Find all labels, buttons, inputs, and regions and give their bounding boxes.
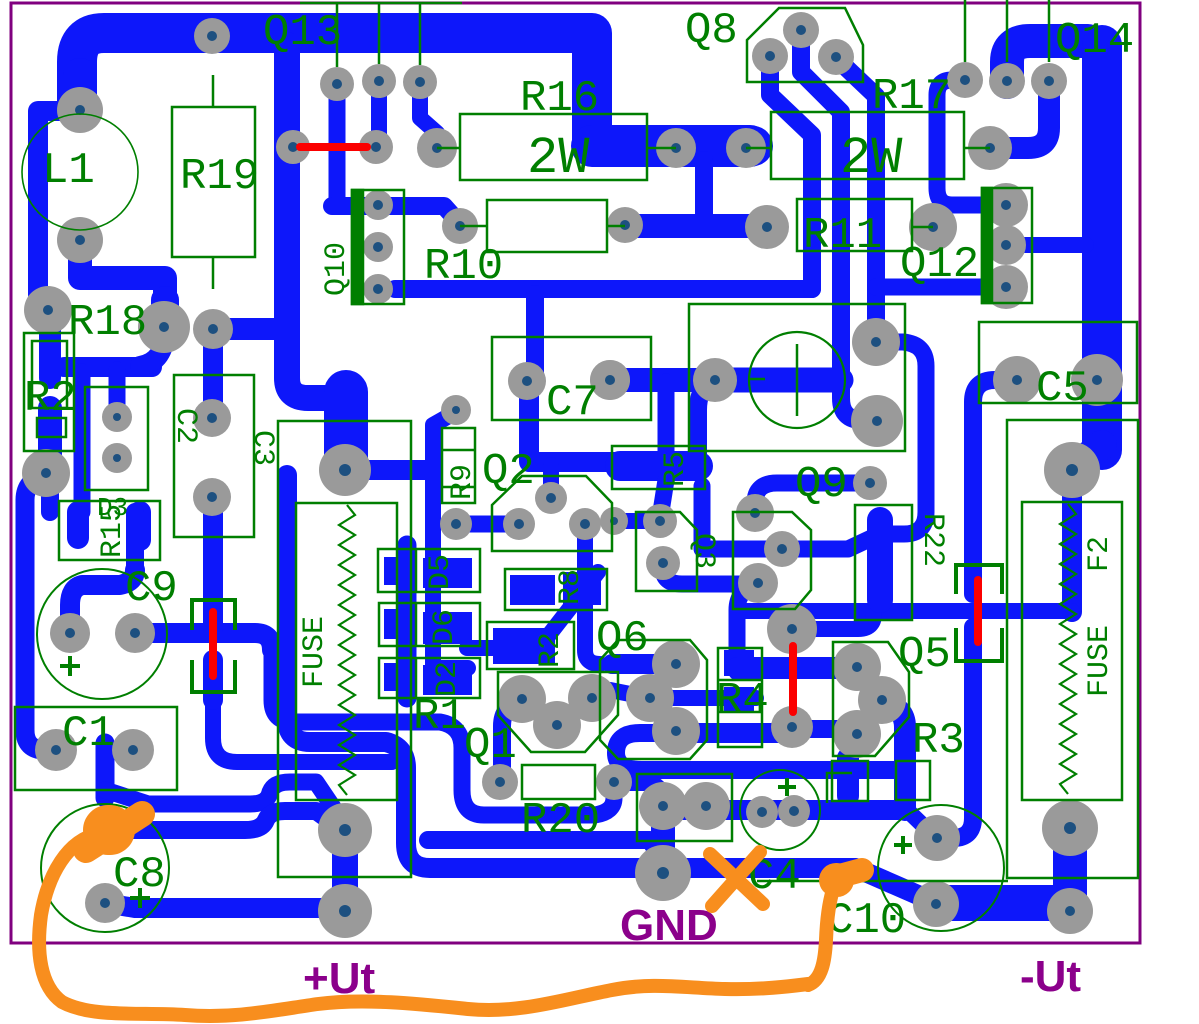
wire L1 pad to left rail [38, 111, 80, 312]
wire top bus from L1 to R16 [77, 33, 753, 146]
wire R15 drop [74, 372, 91, 512]
pad GND block 1 [639, 782, 687, 830]
svg-text:Q2: Q2 [482, 447, 535, 497]
svg-text:Q6: Q6 [596, 614, 649, 664]
svg-text:F2: F2 [1083, 536, 1117, 572]
wire R16 stub down [695, 160, 713, 227]
fuse F1 [278, 421, 411, 877]
transistor Q12 [900, 188, 1032, 303]
pad Q4 mid [738, 563, 778, 603]
pad L1.1 [57, 87, 103, 133]
transistor Q10 [320, 190, 404, 304]
wire Q6 pad3 to jumper pad [676, 723, 792, 743]
cap block small left [832, 761, 868, 801]
pad node 456 [441, 395, 471, 425]
wire C2 feed band [64, 357, 152, 377]
pad Q10.2 [363, 232, 393, 262]
transistor Q3 [636, 512, 720, 591]
jumper wire J3 [789, 646, 797, 712]
wire rail into big pad [1072, 445, 1102, 470]
wire C5 pad down the right column to C10 [973, 380, 1017, 594]
pad node 456b [440, 508, 472, 540]
wire C7 pad down to R5 [529, 385, 618, 462]
svg-text:R9: R9 [446, 464, 480, 500]
wire jumper pad riser [792, 614, 874, 629]
pad GND big [635, 845, 691, 901]
pad trimmer left [590, 360, 630, 400]
transistor Q8 [685, 6, 863, 82]
wire trimmer pads band [610, 368, 715, 392]
wire Q8 leg1 via R11 to R10 bus [770, 58, 812, 289]
pad Q6.3 [652, 707, 700, 755]
wire trimmer right pad down [698, 382, 712, 455]
svg-text:R8: R8 [554, 569, 588, 605]
pad Q9 [853, 466, 887, 500]
svg-text:R18: R18 [68, 298, 147, 348]
pad Q1.3 [568, 674, 616, 722]
diode D5 [378, 549, 480, 592]
pad C2.2 [102, 443, 132, 473]
wire C9 arc from jumper column [70, 570, 135, 630]
wire lane B fuse rail to C10 [287, 475, 934, 902]
resistor R2 [24, 333, 77, 451]
wire Q13 leg2 drop [376, 84, 379, 147]
pad Q1.2 [533, 701, 581, 749]
pad C4.2 [778, 795, 810, 827]
wire Q3 pads link [663, 568, 758, 584]
pad Q6.1 [652, 640, 700, 688]
wire C1 mid drop [96, 743, 115, 798]
svg-text:R20: R20 [521, 796, 600, 846]
annotation X mark stroke 2 [712, 852, 760, 906]
wire F2 bottom pads [1053, 828, 1087, 908]
pad C3.1 [193, 399, 231, 437]
wire D2 right fill [423, 665, 472, 695]
capacitor C5 [979, 322, 1137, 414]
wire Q14 leg1 to Q12 pin1 [937, 80, 984, 205]
pad Q2.3 [569, 508, 601, 540]
svg-text:Q13: Q13 [263, 8, 342, 58]
wire D6 to R2b [467, 640, 500, 656]
pad top bus [194, 18, 230, 54]
transistor Q2 [482, 447, 612, 551]
svg-text:D3: D3 [97, 493, 128, 523]
wire lane A to R20 [272, 648, 614, 815]
wire C4 lane [657, 800, 902, 820]
wire R2 pad down to R15 [41, 476, 59, 512]
resistor R3 label [912, 716, 965, 766]
svg-text:Q9: Q9 [795, 460, 848, 510]
jumper bracket J4 bottom [956, 628, 1002, 661]
wire C9 to lane A [135, 633, 272, 650]
wire wide drop to fuse pad F1 [324, 392, 368, 470]
pad R11.2 [909, 203, 957, 251]
fuse F2 [1007, 420, 1138, 878]
wire trimmer crossing band [715, 368, 841, 393]
wire pad876 to R22 top loop [702, 342, 926, 549]
pad R20.1 [482, 764, 518, 800]
resistor R19 [172, 75, 259, 289]
pad Q5.2 [858, 676, 906, 724]
pad C5.2 [1071, 354, 1123, 406]
wire fuse pad to diode column [345, 460, 428, 480]
svg-text:C7: C7 [546, 378, 599, 428]
pad L1.2 [57, 217, 103, 263]
svg-text:C10: C10 [827, 896, 906, 946]
pad GND block 2 [682, 782, 730, 830]
pad C9.1 [50, 613, 90, 653]
svg-text:L1: L1 [42, 146, 95, 196]
pad node 876 [852, 318, 900, 366]
diode D2 [379, 658, 480, 698]
pad R10.2 [607, 207, 643, 243]
wire C1 lane P [105, 782, 345, 825]
transistor Q6 [596, 614, 707, 759]
pad big right [1044, 442, 1100, 498]
pad Q8.1 [752, 38, 788, 74]
svg-text:Q14: Q14 [1055, 16, 1134, 66]
pad Q12.2 [986, 225, 1026, 265]
wire R18 pad riser [151, 300, 179, 327]
wire pad164 to C2 link [140, 330, 165, 366]
resistor R11 [797, 199, 933, 261]
wire D2 left fill [384, 663, 415, 691]
wire D6-D2 link [425, 640, 439, 668]
pad R16.2 [656, 128, 696, 168]
annotation X mark stroke 1 [710, 854, 763, 904]
wire C2 stub down [109, 370, 126, 405]
pad C8.2 [85, 883, 125, 923]
wire C8 lane Q [107, 811, 345, 832]
pad jumper J1 right [359, 130, 393, 164]
wire Q6 to bottom lane [616, 733, 902, 770]
capacitor C3 [174, 375, 279, 537]
capacitor C9 [37, 564, 178, 699]
pad C9.2 [115, 613, 155, 653]
wire Q1 pad to R20 left pad [502, 700, 522, 780]
wire branch to Q12 pin3 [876, 279, 984, 296]
wire C9 feed vertical [126, 512, 144, 575]
pad C1.1 [35, 729, 77, 771]
svg-text:FUSE: FUSE [298, 616, 332, 688]
pad Q2.1 [535, 482, 567, 514]
wire mid lane to F2 [737, 603, 1072, 619]
wire Q6 bottom pads band [610, 690, 756, 698]
wire Q5 column to C10 pad diagonal [905, 808, 934, 836]
svg-text:C1: C1 [62, 709, 115, 759]
annotation wire vertical to C10 node [808, 882, 836, 985]
wire right edge thick rail [1082, 45, 1122, 450]
wire D5 right fill [423, 558, 472, 588]
wire Q8 leg2 to trimmer pad [801, 32, 877, 420]
jumper wire J4 [974, 580, 982, 642]
wire R8 left fill [510, 575, 555, 605]
pad R18.2 [138, 301, 190, 353]
pad Q1.1 [498, 675, 546, 723]
pad Q14.1 [947, 62, 983, 98]
wire R15 fills [78, 512, 140, 540]
pad C4.1 [746, 796, 778, 828]
wire D6 right fill [423, 612, 472, 644]
pad Q6.2 [626, 674, 674, 722]
pad F2 bottom [1047, 888, 1093, 934]
svg-text:-Ut: -Ut [1020, 952, 1081, 1001]
wire Q6 top band [612, 654, 676, 674]
svg-text:R16: R16 [520, 74, 599, 124]
pad R20.2 [596, 764, 632, 800]
transistor Q14 [965, 0, 1134, 66]
cap block small right [896, 761, 930, 800]
resistor R16 [437, 74, 676, 188]
diode D6 [379, 603, 480, 646]
wire Q2 top leg [543, 465, 559, 498]
pad F1 mid [318, 803, 372, 857]
pad Q14.3 [1031, 63, 1067, 99]
wire Q9 band to Q4 top pad [755, 483, 870, 515]
annotation arrow tip2 [836, 870, 862, 877]
resistor R1 label [413, 692, 466, 742]
pad Q8.2 [783, 12, 819, 48]
wire Q8 leg3 to pad876 [836, 58, 876, 342]
wire Q13 leg3 drop [420, 84, 437, 148]
annotation marker blob on C8 pad [108, 805, 110, 855]
wire R2 pad to left rail [25, 475, 56, 750]
wire R2b fill [493, 628, 555, 664]
resistor R5 [612, 446, 705, 489]
diode D3 label [97, 493, 128, 523]
svg-text:Q8: Q8 [685, 6, 738, 56]
wire diode stack vertical [398, 545, 417, 698]
wire C10 thick band [936, 885, 1070, 921]
pad C7.1 [508, 362, 546, 400]
inductor L1 [22, 114, 138, 230]
wire Q4 pad through R4 [737, 583, 758, 672]
resistor R15 [59, 501, 160, 560]
wire R20 right pad to GND pad [614, 782, 663, 806]
wire GND block pad down [651, 806, 675, 873]
wire lane C jumper vertical to bottom [213, 700, 392, 762]
svg-text:R4: R4 [716, 676, 769, 726]
wire Q14 center leg arch [1007, 41, 1088, 82]
wire D5 left fill [384, 557, 415, 585]
resistor R2b [487, 622, 574, 669]
svg-text:C9: C9 [125, 564, 178, 614]
annotation marker arm [86, 814, 142, 850]
pad R16.1 [417, 128, 457, 168]
wire R4 bottom fill [724, 687, 754, 711]
transistor Q5 [833, 630, 951, 756]
svg-text:R2: R2 [534, 632, 568, 668]
svg-text:Q5: Q5 [898, 630, 951, 680]
pad R18.1 [24, 286, 72, 334]
svg-text:D5: D5 [424, 554, 458, 590]
wire C10 top pad corner [937, 829, 953, 847]
pad node 660 [643, 504, 677, 538]
wire R2 top fill [39, 322, 61, 378]
pad Q14.2 [989, 63, 1025, 99]
transistor Q13 [263, 3, 462, 67]
pad F1 bottom [318, 884, 372, 938]
wire L1 top pad stub [63, 75, 97, 112]
wire R10 to R11 band [625, 214, 767, 238]
capacitor C1 [15, 707, 177, 790]
svg-text:R17: R17 [872, 72, 951, 122]
pad Q2.2 [503, 508, 535, 540]
jumper wire J1 [300, 143, 367, 151]
pad Q4 top [736, 494, 774, 532]
pad C3.2 [193, 478, 231, 516]
wire pads 614 to 660 [614, 513, 660, 529]
capacitor C2 [85, 387, 202, 490]
annotation wire from C8 to bottom [39, 834, 808, 1016]
pad C1.2 [112, 729, 154, 771]
pad C3 top [193, 309, 233, 349]
pad F1 top [319, 444, 371, 496]
transistor Q1 [464, 672, 618, 771]
wire Q2 left pads band [456, 516, 519, 533]
resistor R10 [424, 200, 625, 292]
svg-text:R11: R11 [803, 211, 882, 261]
svg-text:D6: D6 [428, 609, 462, 645]
pad trimmer out [851, 395, 903, 447]
wire R16 pads joint [592, 125, 750, 167]
transistor Q4 [733, 512, 811, 609]
pad Q3.2 [646, 546, 680, 580]
wire pad456 down the diode stack [433, 412, 468, 668]
svg-text:2W: 2W [840, 129, 903, 188]
jumper bracket J2 top [192, 600, 235, 630]
pad Q5.1 [833, 643, 881, 691]
wire C7 stub [526, 294, 544, 378]
wire Q5 pad2 down [882, 702, 905, 810]
connector GND block [637, 774, 732, 841]
pad R10.1 [442, 208, 478, 244]
pad C5.1 [993, 356, 1041, 404]
pad C10.1 [914, 815, 960, 861]
wire R5 fill [620, 451, 698, 481]
pad Q10.3 [363, 274, 393, 304]
pad Q13.1 [320, 67, 354, 101]
pad Q12.1 [984, 183, 1028, 227]
wire pad 213 to main vertical [213, 318, 287, 340]
resistor R22 [855, 505, 949, 620]
pad node 782 [764, 531, 800, 567]
pad trimmer right [693, 358, 737, 402]
wire trimmer left T down [658, 382, 675, 458]
trimmer P1 [689, 304, 905, 451]
pad Q13.2 [362, 64, 396, 98]
annotation arrow tip [836, 863, 837, 897]
svg-text:C3: C3 [245, 430, 279, 466]
svg-text:Q12: Q12 [900, 240, 979, 290]
wire Q13 leg1 drop [329, 86, 346, 198]
pad Q8.3 [818, 39, 854, 75]
wire C8 bottom band [105, 903, 345, 908]
wire L1 bottom pad to R18 pad [80, 240, 165, 327]
wire R4 to Q5 band [737, 657, 853, 679]
wire C3 top stub [203, 332, 223, 415]
resistor R4 [716, 648, 769, 747]
wire R8 diagonal [545, 572, 598, 640]
resistor R20 [521, 765, 600, 846]
pad Q12.3 [984, 265, 1028, 309]
wire Q13 band to R10 pad [332, 206, 460, 224]
resistor R9 [442, 428, 480, 503]
svg-text:R2: R2 [24, 374, 77, 424]
wire Q12 pin2 to rail [1006, 237, 1086, 253]
svg-text:FUSE: FUSE [1083, 625, 1117, 697]
pad R11.1 [745, 205, 789, 249]
wire lane D to fuse bottom pad [428, 840, 663, 862]
svg-text:Q10: Q10 [320, 242, 354, 296]
svg-text:Q1: Q1 [464, 721, 517, 771]
svg-text:R10: R10 [424, 242, 503, 292]
jumper bracket J4 top [956, 565, 1002, 594]
wire main vertical to fuse pad [287, 45, 346, 398]
pad R2 bottom [22, 449, 70, 497]
svg-text:R5: R5 [659, 451, 693, 487]
wire R10 bus [395, 280, 812, 298]
svg-text:2W: 2W [527, 129, 590, 188]
pad F2 top [1042, 800, 1098, 856]
capacitor C7 [492, 337, 651, 428]
capacitor C4 [740, 770, 820, 902]
svg-text:R3: R3 [912, 716, 965, 766]
wire jumper J4 bottom to C10 [937, 627, 973, 838]
wire F1 pads link [332, 830, 358, 911]
wire R22 fill [867, 520, 893, 600]
wire R8 right fill [563, 572, 601, 605]
wire R2 bottom fill [38, 408, 62, 470]
pad Q10.1 [363, 190, 393, 220]
wire jumper bottom to C8 column [203, 660, 223, 700]
pad jumper J3 bottom [771, 706, 813, 748]
capacitor C10 [827, 805, 1004, 946]
pad Q13.3 [403, 65, 437, 99]
wire Q5 pad3 drop fill [837, 758, 859, 796]
jumper wire J2 [209, 612, 217, 676]
svg-text:Q3: Q3 [686, 533, 720, 569]
resistor R18 label [68, 298, 147, 348]
wire big pad down to node lane [1062, 470, 1082, 612]
svg-text:GND: GND [620, 901, 718, 950]
resistor R8 [505, 569, 607, 610]
pad jumper J3 top [767, 604, 817, 654]
pad R17.2 [968, 126, 1012, 170]
wire Q14 leg3 to R17 pad [990, 85, 1049, 148]
pad R17.1 [726, 128, 766, 168]
pad Q5.3 [833, 710, 881, 758]
wire D6 left fill [384, 609, 415, 639]
pad C8.1 [86, 806, 128, 848]
wire C3 bottom drop to jumper top [203, 497, 223, 628]
svg-text:R1: R1 [413, 692, 466, 742]
transistor Q9 label [795, 460, 848, 510]
pad jumper J1 left [276, 130, 310, 164]
svg-text:C5: C5 [1036, 364, 1089, 414]
svg-text:R19: R19 [180, 152, 259, 202]
wire Q2 right pad down to Q6 [585, 528, 600, 664]
pad C10.2 [913, 881, 959, 927]
pad C7.2 [590, 360, 630, 400]
wire jumper to Q5 pad3 [792, 720, 857, 738]
pad node 614 [600, 507, 628, 535]
pad C2.1 [102, 402, 132, 432]
capacitor C8 [41, 804, 169, 932]
wire R4 top fill [724, 650, 754, 676]
resistor R17 [746, 72, 990, 188]
bottom outline rect [757, 773, 1008, 881]
